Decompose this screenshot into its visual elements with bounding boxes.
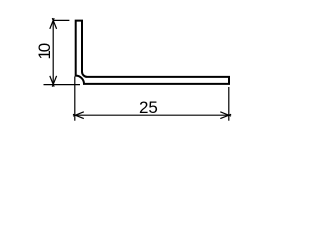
extension line top of dim 10 bbox=[53, 19, 69, 21]
arrowhead left of dim 25 bbox=[73, 112, 84, 119]
extension line left of dim 25 bbox=[74, 77, 76, 121]
extension line right of dim 25 bbox=[228, 87, 230, 121]
svg-text:10: 10 bbox=[35, 43, 54, 59]
dimension line 10 (vertical) bbox=[52, 20, 54, 84]
svg-text:25: 25 bbox=[139, 98, 158, 117]
arrowhead right of dim 25 bbox=[220, 112, 231, 119]
extension line bottom of dim 10 bbox=[44, 84, 81, 86]
dimension line 25 (horizontal) bbox=[75, 114, 229, 116]
arrowhead down of dim 10 bbox=[50, 76, 57, 87]
L-angle profile outline bbox=[76, 21, 229, 84]
arrowhead up of dim 10 bbox=[50, 18, 57, 29]
